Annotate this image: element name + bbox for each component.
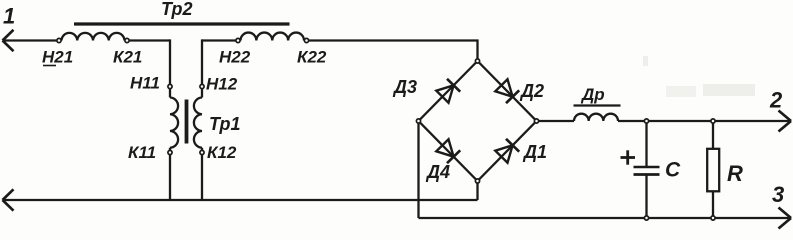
svg-text:К21: К21 — [113, 48, 142, 67]
svg-text:1: 1 — [3, 4, 15, 29]
diode Д1 — [495, 139, 519, 163]
svg-text:Д3: Д3 — [392, 77, 417, 97]
node bridge bottom — [475, 179, 479, 183]
bottom rail (common, terminal arrow at left) — [3, 199, 478, 201]
bottom-left terminal arrow — [3, 189, 14, 210]
winding H11-K11 of Tp1 (bulges right) — [170, 98, 178, 148]
wire choke to terminal 2 — [618, 120, 791, 122]
bleed-through ghost marks top right — [643, 56, 755, 97]
winding H22-K22 of Tp2 — [241, 33, 305, 41]
svg-text:К11: К11 — [128, 143, 156, 162]
svg-text:Н21: Н21 — [42, 48, 73, 67]
diode Д2 — [495, 79, 519, 103]
svg-text:К22: К22 — [297, 48, 327, 67]
node resistor bottom — [711, 216, 715, 220]
wire bridge right vertex to choke — [537, 120, 575, 122]
node resistor top — [711, 119, 715, 123]
node H21 — [57, 38, 61, 42]
svg-text:Д1: Д1 — [522, 142, 547, 162]
wire top right segment (corner to H22) — [202, 39, 241, 41]
wire bridge left vertex down to rail 3 — [417, 121, 419, 218]
terminal 2 arrow — [779, 111, 792, 132]
terminal 3 arrow — [779, 208, 792, 229]
node K12 — [200, 150, 204, 154]
svg-text:3: 3 — [772, 182, 784, 207]
choke Dp winding — [574, 114, 618, 121]
label H21 — [42, 48, 73, 67]
node bridge top — [475, 59, 479, 63]
diode Д4 — [436, 139, 460, 163]
svg-text:2: 2 — [769, 88, 783, 113]
winding H21-K21 of Tp2 — [62, 33, 125, 41]
winding H12-K12 of Tp1 (bulges left) — [194, 98, 202, 148]
node capacitor top — [644, 119, 648, 123]
wire vertical right column (top corner to bottom rail) — [201, 39, 203, 200]
node H12 — [200, 84, 204, 88]
node K21 — [125, 38, 129, 42]
resistor R branch wires — [712, 121, 714, 218]
svg-text:Д4: Д4 — [425, 162, 450, 182]
svg-text:Н11: Н11 — [130, 74, 160, 93]
capacitor C plates — [634, 167, 660, 175]
node K22 — [304, 38, 308, 42]
svg-text:К12: К12 — [207, 143, 237, 162]
node H11 — [168, 84, 172, 88]
wire bridge bottom vertex down to rail 1 — [476, 181, 478, 200]
svg-text:Тр2: Тр2 — [161, 0, 193, 19]
resistor R body — [707, 149, 719, 192]
transformer Tp1 core bar — [185, 100, 189, 144]
wire top left (terminal 1 to H21) — [3, 39, 62, 41]
svg-text:С: С — [665, 159, 681, 182]
plus sign of capacitor — [621, 150, 636, 164]
svg-text:Др: Др — [580, 85, 605, 104]
choke Dp core bar — [574, 104, 621, 106]
rail to terminal 3 — [419, 217, 792, 219]
node capacitor bottom — [644, 216, 648, 220]
node K11 — [168, 150, 172, 154]
terminal 1 arrow — [3, 30, 14, 51]
wire K22 to bridge top corner — [304, 41, 478, 62]
node bridge right — [534, 119, 538, 123]
node H22 — [236, 38, 240, 42]
wire K21 to corner — [125, 39, 171, 41]
capacitor C branch wires — [645, 121, 647, 218]
bridge diamond wires — [419, 61, 537, 181]
svg-text:Д2: Д2 — [519, 81, 544, 101]
svg-text:R: R — [727, 161, 743, 186]
diode Д3 — [436, 79, 460, 103]
wire vertical left column (corner to bottom rail) — [169, 39, 171, 200]
svg-text:Н22: Н22 — [219, 48, 251, 67]
svg-text:Н12: Н12 — [206, 75, 238, 94]
svg-text:Тр1: Тр1 — [209, 114, 241, 134]
transformer Tp2 core bar — [74, 22, 290, 25]
node bridge left — [416, 119, 420, 123]
